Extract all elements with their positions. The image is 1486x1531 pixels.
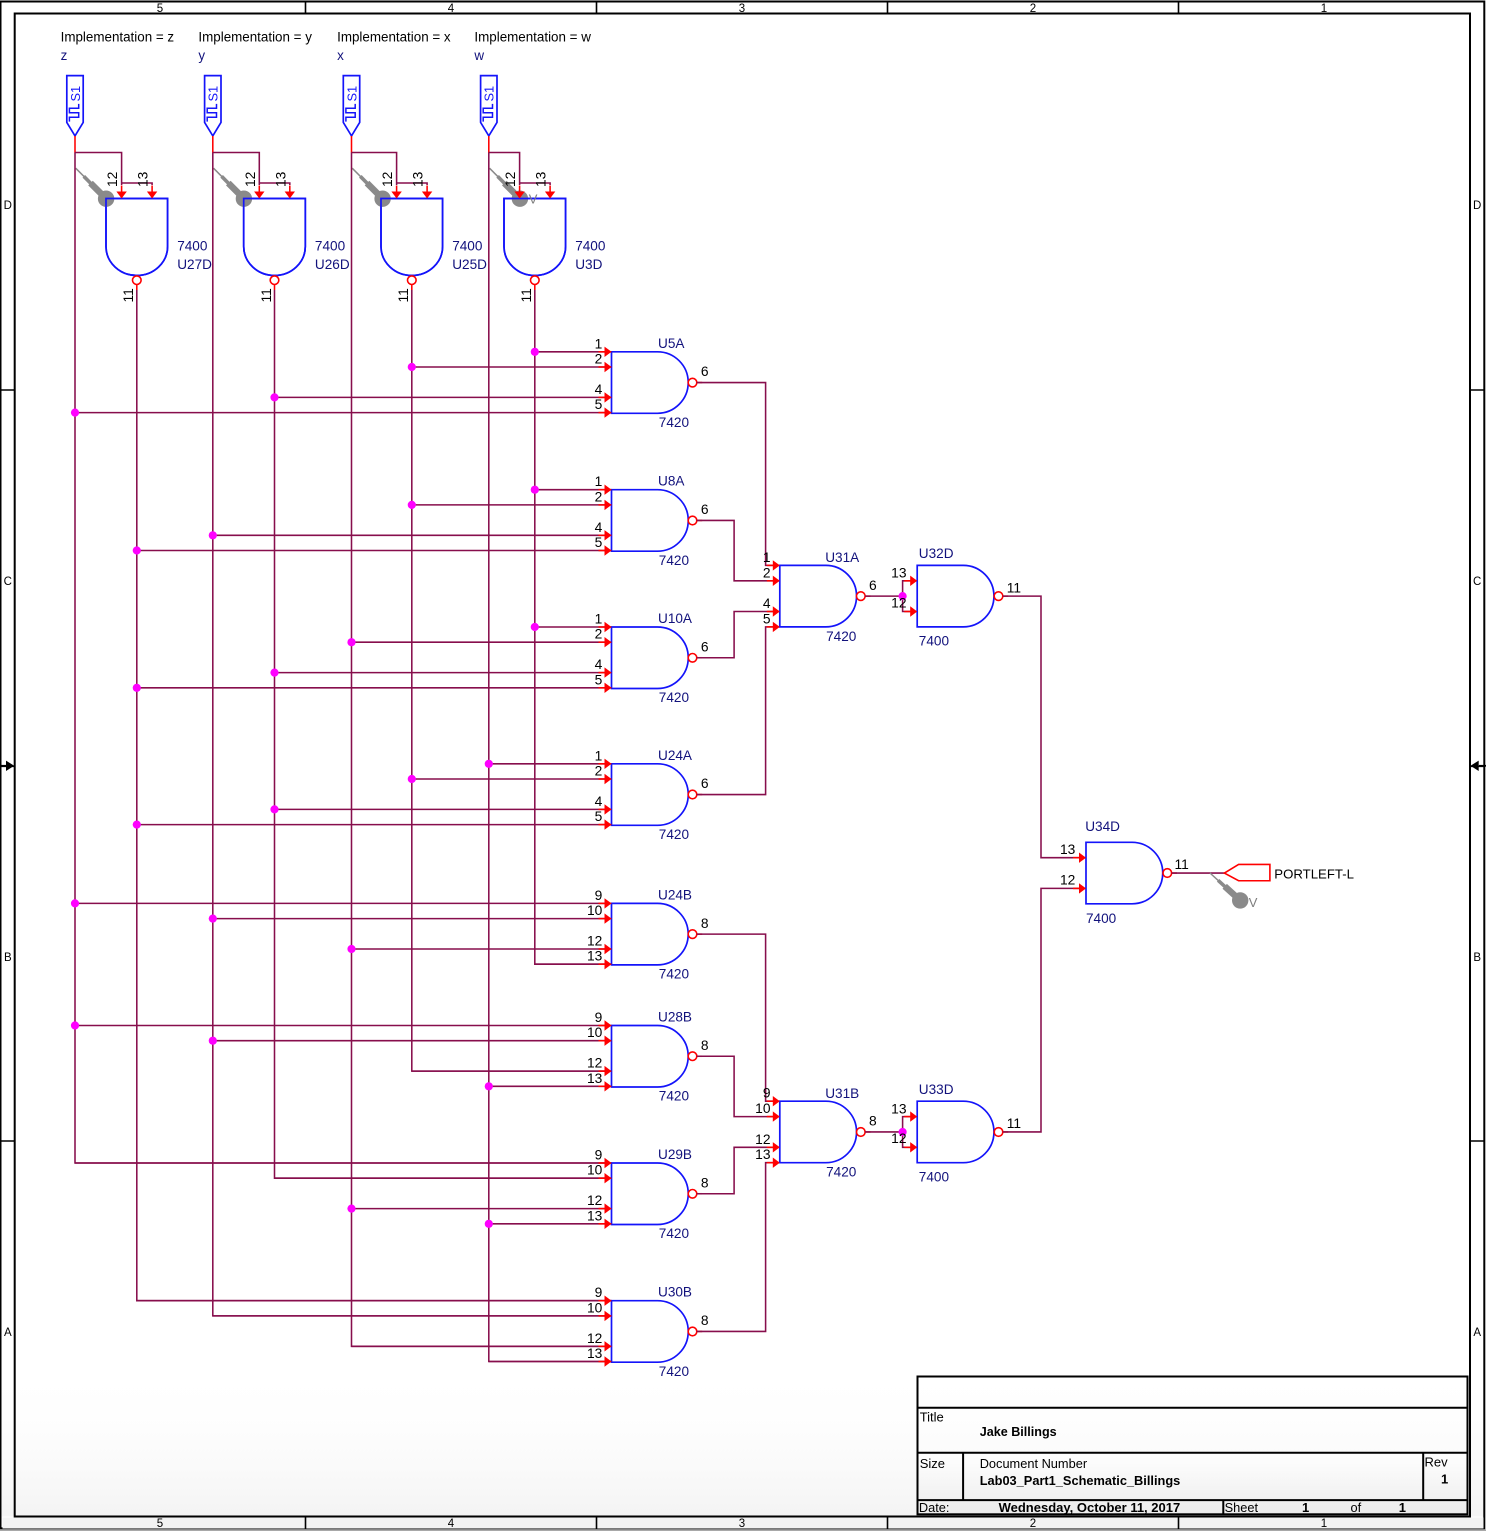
svg-text:13: 13: [587, 949, 603, 964]
nand gate U28B (7420): [612, 1026, 689, 1088]
svg-text:S1: S1: [482, 86, 497, 102]
svg-text:2: 2: [1030, 1518, 1036, 1530]
svg-text:11: 11: [121, 288, 136, 302]
svg-text:U24B: U24B: [658, 887, 692, 902]
nand gate U27D (7400, inputs on top): [106, 199, 168, 276]
svg-text:13: 13: [534, 171, 549, 187]
wire branch x to U25D pin 13: [397, 183, 428, 185]
svg-text:2: 2: [1030, 3, 1036, 15]
svg-text:12: 12: [105, 172, 120, 187]
wire junction to U33D.13: [903, 1117, 918, 1132]
output bubble U28B: [688, 1052, 697, 1061]
svg-text:13: 13: [411, 171, 426, 187]
wire trunk w-bar (U3D.11): [535, 290, 612, 964]
svg-text:U3D: U3D: [575, 257, 602, 272]
pin arrow U29B.13: [599, 1223, 606, 1225]
svg-text:13: 13: [891, 566, 907, 581]
svg-text:11: 11: [1175, 857, 1189, 872]
svg-text:D: D: [4, 200, 12, 212]
wire to U24B pin 13: [535, 963, 612, 965]
svg-text:A: A: [1473, 1327, 1481, 1339]
svg-text:4: 4: [595, 794, 603, 809]
svg-text:D: D: [1473, 200, 1481, 212]
wire trunk w: [489, 153, 612, 1362]
svg-text:4: 4: [448, 3, 455, 15]
svg-text:12: 12: [587, 1193, 602, 1208]
wire U5A output to U31A.1: [697, 383, 780, 566]
wire to U29B pin 10: [275, 1177, 612, 1179]
wire to U24A pin 2: [412, 778, 612, 780]
svg-text:11: 11: [396, 288, 411, 302]
wire to U30B pin 9: [137, 1300, 612, 1302]
nand gate U29B (7420): [612, 1163, 689, 1225]
svg-text:U31A: U31A: [825, 550, 860, 565]
wire U24A output to U31A.5: [697, 627, 780, 795]
svg-text:10: 10: [587, 1300, 603, 1315]
pin arrow U30B.9: [599, 1300, 606, 1302]
svg-text:11: 11: [1007, 1116, 1021, 1131]
svg-text:5: 5: [595, 397, 603, 412]
wire to U8A pin 2: [412, 504, 612, 506]
pin arrow U31B.12: [767, 1146, 774, 1148]
svg-text:8: 8: [701, 916, 709, 931]
junction on trunk at U24A.2: [408, 775, 416, 783]
wire to U28B pin 10: [213, 1040, 612, 1042]
pin arrow U10A.2: [599, 641, 606, 643]
svg-text:8: 8: [701, 1038, 709, 1053]
svg-text:5: 5: [157, 1518, 163, 1530]
svg-text:3: 3: [739, 3, 745, 15]
pin arrow U5A.5: [599, 412, 606, 414]
stimulus pin stub y: [212, 136, 214, 153]
svg-text:9: 9: [595, 1148, 603, 1163]
pin arrow U3D.12: [519, 186, 521, 193]
svg-text:U25D: U25D: [452, 257, 487, 272]
svg-text:of: of: [1351, 1500, 1362, 1515]
output bubble U3D: [531, 276, 540, 285]
svg-text:4: 4: [595, 657, 603, 672]
wire branch w to U3D pin 12: [489, 153, 520, 186]
junction on trunk at U8A.2: [408, 501, 416, 509]
pin arrow U28B.10: [599, 1040, 606, 1042]
voltage probe on output net: [1210, 873, 1219, 881]
pin arrow U25D.12: [396, 186, 398, 193]
svg-text:Document Number: Document Number: [980, 1456, 1088, 1471]
wire to U29B pin 13: [489, 1223, 612, 1225]
wire to U24A pin 1: [489, 763, 612, 765]
wire to U29B pin 9: [75, 1162, 612, 1164]
nand gate U5A (7420): [612, 352, 689, 414]
page bottom shading: [2, 1365, 1484, 1517]
svg-text:1: 1: [1302, 1500, 1309, 1515]
svg-text:U27D: U27D: [177, 257, 212, 272]
output bubble U27D: [133, 276, 142, 285]
output bubble U25D: [408, 276, 417, 285]
svg-text:12: 12: [1060, 873, 1075, 888]
junction on trunk at U24B.10: [209, 915, 217, 923]
bottom ruler strip tint: [3, 1518, 1484, 1529]
svg-text:U32D: U32D: [919, 546, 954, 561]
wire to U8A pin 4: [213, 534, 612, 536]
wire to U10A pin 2: [352, 641, 612, 643]
svg-text:7400: 7400: [575, 239, 606, 254]
pin arrow U24B.9: [599, 902, 606, 904]
pin arrow U10A.1: [599, 626, 606, 628]
svg-text:Sheet: Sheet: [1225, 1500, 1259, 1515]
svg-text:8: 8: [701, 1176, 709, 1191]
wire to U24B pin 12: [352, 948, 612, 950]
svg-text:6: 6: [701, 502, 709, 517]
digital stimulus DSTM z (S1): [67, 76, 83, 136]
svg-text:13: 13: [136, 171, 151, 187]
pin arrow U30B.13: [599, 1361, 606, 1363]
svg-text:6: 6: [701, 364, 709, 379]
junction on trunk at U24A.4: [270, 805, 278, 813]
junction on trunk at U24A.5: [133, 821, 141, 829]
svg-text:U8A: U8A: [658, 474, 685, 489]
wire branch y to U26D pin 12: [213, 153, 259, 186]
svg-text:V: V: [529, 192, 538, 207]
svg-text:C: C: [4, 576, 12, 588]
wire to U24B pin 10: [213, 918, 612, 920]
svg-text:1: 1: [595, 336, 603, 351]
wire to U24A pin 4: [275, 808, 612, 810]
pin arrow U26D.13: [289, 186, 291, 193]
svg-text:7420: 7420: [659, 827, 690, 842]
svg-text:12: 12: [587, 934, 602, 949]
svg-text:1: 1: [1321, 3, 1327, 15]
wire to U5A pin 1: [535, 351, 612, 353]
svg-text:5: 5: [763, 611, 771, 626]
output bubble U34D: [1163, 869, 1172, 878]
svg-text:4: 4: [595, 382, 603, 397]
wire to U30B pin 10: [213, 1315, 612, 1317]
wire branch y to U26D pin 13: [259, 183, 290, 185]
wire U33D output to U34D.12: [1003, 888, 1086, 1132]
svg-text:6: 6: [701, 640, 709, 655]
svg-text:U5A: U5A: [658, 336, 685, 351]
wire to U30B pin 13: [489, 1361, 612, 1363]
wire to U10A pin 4: [275, 672, 612, 674]
wire U28B output to U31B.10: [697, 1056, 780, 1116]
output pin stub U25D.11: [411, 284, 413, 290]
svg-text:B: B: [4, 952, 12, 964]
pin arrow U31A.2: [767, 580, 774, 582]
svg-text:V: V: [1249, 895, 1258, 910]
junction on trunk at U28B.13: [485, 1082, 493, 1090]
nand gate U33D (7400): [917, 1101, 994, 1163]
wire U31B output to junction: [865, 1131, 903, 1133]
wire to U10A pin 5: [137, 687, 612, 689]
bottom screen edge: [0, 1530, 1486, 1531]
svg-text:7400: 7400: [177, 239, 208, 254]
output bubble U31B: [857, 1128, 866, 1137]
pin arrow U29B.10: [599, 1177, 606, 1179]
svg-text:11: 11: [259, 288, 274, 302]
svg-text:S1: S1: [344, 86, 359, 102]
svg-text:12: 12: [503, 172, 518, 187]
svg-text:10: 10: [587, 903, 603, 918]
svg-text:6: 6: [701, 776, 709, 791]
voltage probe on net z: [76, 168, 85, 177]
svg-text:z: z: [61, 48, 68, 63]
nand gate U3D (7400, inputs on top): [504, 199, 566, 276]
svg-text:12: 12: [587, 1056, 602, 1071]
svg-text:Implementation = y: Implementation = y: [198, 30, 312, 45]
svg-text:13: 13: [891, 1101, 907, 1116]
junction on trunk at U28B.9: [71, 1021, 79, 1029]
svg-text:U31B: U31B: [825, 1086, 859, 1101]
pin arrow U24B.10: [599, 918, 606, 920]
voltage probe on net x: [352, 168, 361, 177]
stimulus pin stub w: [488, 136, 490, 153]
junction on trunk at U28B.10: [209, 1037, 217, 1045]
svg-text:7400: 7400: [919, 1169, 950, 1184]
svg-text:4: 4: [448, 1518, 455, 1530]
sheet centre arrow right: [1479, 765, 1486, 767]
pin arrow U5A.4: [599, 396, 606, 398]
nand gate U25D outline: [381, 199, 443, 276]
wire U30B output to U31B.13: [697, 1163, 780, 1332]
svg-text:S1: S1: [68, 86, 83, 102]
title block frame: [918, 1377, 1468, 1515]
svg-text:12: 12: [891, 595, 906, 610]
junction on trunk at U24B.12: [347, 945, 355, 953]
svg-text:13: 13: [587, 1071, 603, 1086]
svg-text:Size: Size: [920, 1456, 945, 1471]
output bubble U30B: [688, 1327, 697, 1336]
svg-text:w: w: [473, 48, 484, 63]
pin arrow U31A.1: [767, 564, 774, 566]
svg-text:7400: 7400: [1086, 911, 1117, 926]
junction on trunk at U10A.4: [270, 669, 278, 677]
wire U8A output to U31A.2: [697, 520, 780, 580]
svg-text:5: 5: [595, 809, 603, 824]
nand gate U10A (7420): [612, 627, 689, 689]
pin arrow U5A.2: [599, 366, 606, 368]
junction on trunk at U10A.5: [133, 684, 141, 692]
pin arrow U24A.4: [599, 808, 606, 810]
output bubble U24A: [688, 790, 697, 799]
nand gate U25D (7400, inputs on top): [381, 199, 443, 276]
stimulus pin stub x: [351, 136, 353, 153]
svg-text:5: 5: [157, 3, 163, 15]
svg-text:13: 13: [587, 1208, 603, 1223]
svg-text:S1: S1: [206, 86, 221, 102]
svg-text:U26D: U26D: [315, 257, 350, 272]
pin arrow U27D.12: [121, 186, 123, 193]
wire trunk z: [75, 153, 612, 1164]
svg-text:9: 9: [595, 888, 603, 903]
wire to U10A pin 1: [535, 626, 612, 628]
junction on trunk at U29B.13: [485, 1220, 493, 1228]
pin arrow U34D.12: [1073, 887, 1080, 889]
nand gate U24A (7420): [612, 764, 689, 826]
svg-text:10: 10: [587, 1025, 603, 1040]
wire to U28B pin 13: [489, 1085, 612, 1087]
pin arrow U24A.2: [599, 778, 606, 780]
pin arrow U31A.5: [767, 626, 774, 628]
svg-text:12: 12: [380, 172, 395, 187]
svg-text:7420: 7420: [659, 690, 690, 705]
svg-text:2: 2: [595, 352, 603, 367]
svg-text:A: A: [4, 1327, 12, 1339]
nand gate U24B (7420): [612, 903, 689, 965]
pin arrow U24B.12: [599, 948, 606, 950]
pin arrow U24B.13: [599, 963, 606, 965]
svg-text:y: y: [198, 48, 205, 63]
wire U24B output to U31B.9: [697, 934, 780, 1101]
pin arrow U10A.4: [599, 672, 606, 674]
pin arrow U8A.4: [599, 534, 606, 536]
svg-text:12: 12: [891, 1131, 906, 1146]
svg-text:U33D: U33D: [919, 1082, 954, 1097]
svg-text:8: 8: [701, 1313, 709, 1328]
wire trunk z-bar (U27D.11): [137, 290, 612, 1301]
pin arrow U24A.1: [599, 763, 606, 765]
pin arrow U28B.13: [599, 1085, 606, 1087]
digital stimulus DSTM x (S1): [343, 76, 359, 136]
svg-text:U34D: U34D: [1085, 819, 1120, 834]
wire to U29B pin 12: [352, 1208, 612, 1210]
output bubble U26D: [270, 276, 279, 285]
wire to U24A pin 5: [137, 824, 612, 826]
output pin stub U27D.11: [136, 284, 138, 290]
wire to U8A pin 5: [137, 550, 612, 552]
junction dot before U32D: [899, 592, 907, 600]
wire trunk x: [352, 153, 612, 1347]
svg-text:13: 13: [1060, 842, 1076, 857]
pin arrow U25D.13: [426, 186, 428, 193]
junction on trunk at U5A.2: [408, 363, 416, 371]
voltage probe on net w: [490, 168, 499, 177]
nand gate U26D outline: [244, 199, 306, 276]
junction dot before U33D: [899, 1128, 907, 1136]
pin arrow U31A.4: [767, 611, 774, 613]
pin arrow U31B.10: [767, 1116, 774, 1118]
junction on trunk at U29B.12: [347, 1205, 355, 1213]
svg-text:2: 2: [763, 565, 771, 580]
wire to U28B pin 12: [412, 1070, 612, 1072]
wire U29B output to U31B.12: [697, 1147, 780, 1193]
svg-text:Implementation = w: Implementation = w: [474, 30, 591, 45]
svg-text:PORTLEFT-L: PORTLEFT-L: [1274, 866, 1354, 881]
wire branch x to U25D pin 12: [352, 153, 397, 186]
nand gate U27D outline: [106, 199, 168, 276]
wire U31A output to junction: [865, 595, 903, 597]
svg-text:7420: 7420: [826, 1165, 857, 1180]
svg-text:10: 10: [755, 1101, 771, 1116]
junction on trunk at U5A.4: [270, 393, 278, 401]
svg-text:9: 9: [595, 1285, 603, 1300]
pin arrow U30B.10: [599, 1315, 606, 1317]
svg-text:Jake Billings: Jake Billings: [980, 1425, 1057, 1439]
wire trunk x-bar (U25D.11): [412, 290, 612, 1071]
svg-text:Rev: Rev: [1425, 1454, 1449, 1469]
pin arrow U29B.9: [599, 1162, 606, 1164]
wire to U24B pin 9: [75, 902, 612, 904]
svg-text:U28B: U28B: [658, 1010, 692, 1025]
wire to U5A pin 4: [275, 396, 612, 398]
svg-text:Date:: Date:: [919, 1500, 950, 1515]
nand gate U31A (7420): [780, 565, 857, 627]
pin arrow U24A.5: [599, 824, 606, 826]
svg-text:7420: 7420: [826, 629, 857, 644]
pin arrow U27D.13: [151, 186, 153, 193]
stimulus pin stub z: [74, 136, 76, 153]
nand gate U31B (7420): [780, 1101, 857, 1163]
wire U34D output to port: [1172, 872, 1225, 874]
svg-text:9: 9: [763, 1086, 771, 1101]
svg-text:12: 12: [587, 1331, 602, 1346]
svg-text:7420: 7420: [659, 1364, 690, 1379]
svg-text:1: 1: [595, 474, 603, 489]
output bubble U5A: [688, 378, 697, 387]
junction on trunk at U10A.1: [531, 623, 539, 631]
output bubble U33D: [994, 1128, 1003, 1137]
output bubble U31A: [857, 592, 866, 601]
wire trunk y: [213, 153, 612, 1316]
svg-text:4: 4: [763, 596, 771, 611]
svg-text:5: 5: [595, 672, 603, 687]
svg-text:9: 9: [595, 1010, 603, 1025]
svg-text:U29B: U29B: [658, 1147, 692, 1162]
digital stimulus DSTM y (S1): [205, 76, 221, 136]
svg-text:11: 11: [1007, 580, 1021, 595]
nand gate U26D (7400, inputs on top): [244, 199, 306, 276]
junction on trunk at U5A.1: [531, 348, 539, 356]
svg-text:8: 8: [869, 1114, 877, 1129]
junction on trunk at U24B.9: [71, 899, 79, 907]
svg-text:1: 1: [595, 748, 603, 763]
wire U32D output to U34D.13: [1003, 596, 1086, 858]
wire junction to U33D.12: [903, 1132, 918, 1147]
svg-text:Lab03_Part1_Schematic_Billings: Lab03_Part1_Schematic_Billings: [980, 1473, 1181, 1488]
output bubble U8A: [688, 516, 697, 525]
output bubble U24B: [688, 930, 697, 939]
nand gate U32D (7400): [917, 565, 994, 627]
wire to U5A pin 5: [75, 412, 612, 414]
wire branch z to U27D pin 12: [75, 153, 122, 186]
svg-text:1: 1: [595, 612, 603, 627]
svg-text:13: 13: [587, 1346, 603, 1361]
pin arrow U28B.9: [599, 1025, 606, 1027]
nand gate U3D outline: [504, 199, 566, 276]
pin arrow U10A.5: [599, 687, 606, 689]
svg-text:2: 2: [595, 489, 603, 504]
junction on trunk at U5A.5: [71, 409, 79, 417]
pin arrow U5A.1: [599, 351, 606, 353]
svg-text:10: 10: [587, 1163, 603, 1178]
pin arrow U34D.13: [1073, 857, 1080, 859]
output bubble U29B: [688, 1190, 697, 1199]
pin arrow U33D.13: [904, 1116, 911, 1118]
pin arrow U31B.9: [767, 1100, 774, 1102]
svg-text:2: 2: [595, 764, 603, 779]
svg-text:13: 13: [273, 171, 288, 187]
nand gate U30B (7420): [612, 1301, 689, 1363]
junction on trunk at U24A.1: [485, 760, 493, 768]
pin arrow U8A.1: [599, 489, 606, 491]
wire trunk y-bar (U26D.11): [275, 290, 612, 1178]
wire branch z to U27D pin 13: [122, 183, 153, 185]
output pin stub U3D.11: [534, 284, 536, 290]
junction on trunk at U8A.1: [531, 486, 539, 494]
svg-text:7400: 7400: [919, 634, 950, 649]
svg-text:U24A: U24A: [658, 748, 693, 763]
svg-text:7420: 7420: [659, 967, 690, 982]
nand gate U34D (7400): [1086, 842, 1163, 904]
